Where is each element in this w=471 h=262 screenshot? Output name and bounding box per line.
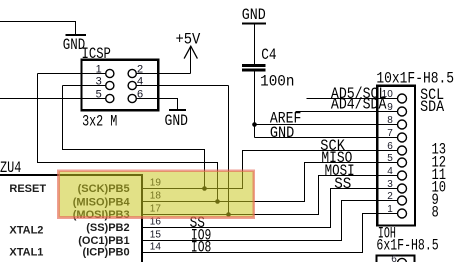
wire ICSP pin3 bbox=[63, 85, 106, 87]
wire ICSP pin4 MOSI bbox=[136, 85, 228, 87]
svg-text:GND: GND bbox=[165, 112, 189, 130]
svg-text:(OC1)PB1: (OC1)PB1 bbox=[78, 235, 129, 247]
svg-text:2: 2 bbox=[387, 191, 393, 202]
wire AD5/SCL stub bbox=[306, 98, 398, 100]
wire GND net top-left bbox=[0, 22, 76, 35]
ground symbol GND top-left bbox=[66, 34, 87, 36]
svg-text:14: 14 bbox=[150, 241, 162, 252]
svg-text:6: 6 bbox=[387, 141, 393, 152]
wire ICSP pin6 to GND bbox=[136, 99, 177, 109]
svg-text:100n: 100n bbox=[260, 73, 294, 91]
pin circle lower 6 bbox=[398, 258, 407, 262]
svg-text:7: 7 bbox=[387, 128, 393, 139]
connector 6x1F-H8.5 box bbox=[377, 256, 415, 262]
svg-text:3x2 M: 3x2 M bbox=[82, 113, 117, 131]
pin circle ICSP 6 bbox=[128, 94, 136, 102]
svg-text:IO8: IO8 bbox=[191, 238, 211, 256]
wire AD4/SDA stub bbox=[296, 111, 398, 113]
wire pin17 MOSI to header pin4 bbox=[142, 176, 398, 215]
svg-text:GND: GND bbox=[270, 124, 294, 142]
connector 10x1F-H8.5 box bbox=[377, 86, 415, 226]
svg-text:ZU4: ZU4 bbox=[0, 159, 21, 177]
pin circle header 10 bbox=[398, 94, 407, 103]
svg-text:(SS)PB2: (SS)PB2 bbox=[86, 222, 129, 234]
junction node MOSI bbox=[226, 212, 231, 217]
pin circle header 4 bbox=[398, 171, 407, 180]
wire MOSI from ICSP pin4 bbox=[228, 86, 230, 215]
svg-text:(ICP)PB0: (ICP)PB0 bbox=[83, 247, 130, 259]
svg-text:3: 3 bbox=[96, 75, 102, 87]
pin circle header 8 bbox=[398, 120, 407, 129]
svg-text:6x1F-H8.5: 6x1F-H8.5 bbox=[376, 237, 438, 255]
junction node MISO bbox=[215, 199, 220, 204]
pin circle header 9 bbox=[398, 107, 407, 116]
svg-text:6: 6 bbox=[391, 254, 397, 262]
wire pin15 IO9 to header pin2 bbox=[142, 201, 398, 241]
pin circle header 6 bbox=[398, 146, 407, 155]
svg-text:XTAL1: XTAL1 bbox=[9, 247, 43, 259]
svg-text:GND: GND bbox=[242, 6, 266, 24]
svg-text:+5V: +5V bbox=[176, 31, 201, 49]
svg-text:6: 6 bbox=[137, 88, 143, 100]
svg-text:4: 4 bbox=[387, 166, 393, 177]
wire pin19 SCK to header pin6 bbox=[142, 151, 398, 189]
wire pin18 MISO to header pin5 bbox=[142, 163, 398, 202]
svg-text:8: 8 bbox=[387, 115, 393, 126]
wire SCK from ICSP pin3 bbox=[63, 86, 205, 189]
wire MISO from ICSP pin1 bbox=[38, 74, 218, 202]
svg-text:RESET: RESET bbox=[9, 183, 46, 195]
svg-text:1: 1 bbox=[387, 204, 393, 215]
svg-text:SDA: SDA bbox=[420, 98, 444, 116]
wire AREF to header pin8 bbox=[255, 124, 399, 126]
connector ICSP box bbox=[82, 60, 159, 110]
svg-text:10: 10 bbox=[382, 89, 394, 100]
wire pin16 SS to header pin3 bbox=[142, 189, 398, 228]
pin circle header 2 bbox=[398, 196, 407, 205]
pin circle header 7 bbox=[398, 133, 407, 142]
pin circle header 1 bbox=[398, 209, 407, 218]
pin circle ICSP 1 bbox=[106, 69, 114, 77]
junction node AREF bbox=[252, 122, 257, 127]
svg-text:C4: C4 bbox=[261, 46, 276, 64]
wire pin14 IO8 to header pin1 bbox=[142, 214, 398, 253]
highlight rectangle bbox=[59, 171, 254, 218]
wire ICSP pin2 to +5V bbox=[136, 73, 190, 75]
pin circle header 5 bbox=[398, 158, 407, 167]
svg-text:5: 5 bbox=[96, 88, 102, 100]
wire ICSP pin1 bbox=[38, 73, 106, 75]
pin circle ICSP 5 bbox=[106, 94, 114, 102]
wire GND to header pin7 bbox=[255, 137, 399, 139]
svg-text:15: 15 bbox=[150, 229, 162, 240]
pin circle ICSP 3 bbox=[106, 81, 114, 89]
pin circle header 3 bbox=[398, 184, 407, 193]
IC ZU4 outline bbox=[0, 175, 142, 262]
svg-text:5: 5 bbox=[387, 153, 393, 164]
wire ICSP pin5 RESET bbox=[0, 98, 106, 100]
svg-text:8: 8 bbox=[432, 203, 439, 221]
wire C4 to junction bbox=[254, 72, 256, 138]
svg-text:2: 2 bbox=[137, 63, 143, 75]
pin circle ICSP 2 bbox=[128, 69, 136, 77]
svg-text:3: 3 bbox=[387, 179, 393, 190]
wire GND to C4 bbox=[254, 24, 256, 64]
svg-text:XTAL2: XTAL2 bbox=[9, 225, 43, 237]
pin circle ICSP 4 bbox=[128, 81, 136, 89]
svg-text:AD4/SDA: AD4/SDA bbox=[331, 95, 387, 113]
ground symbol GND under ICSP bbox=[169, 109, 186, 111]
svg-text:4: 4 bbox=[137, 75, 143, 87]
svg-text:SS: SS bbox=[334, 175, 351, 193]
capacitor C4 bbox=[242, 64, 266, 67]
junction node SCK bbox=[202, 186, 207, 191]
svg-text:9: 9 bbox=[387, 102, 393, 113]
svg-text:1: 1 bbox=[96, 63, 102, 75]
